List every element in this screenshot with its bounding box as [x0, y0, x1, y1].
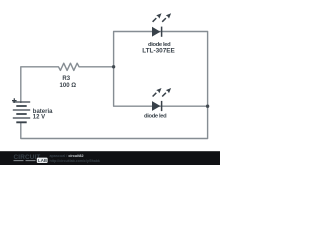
svg-text:LAB: LAB [38, 158, 47, 163]
svg-text:http://circuitlab.com/c/y/5hab: http://circuitlab.com/c/y/5habk [50, 159, 100, 163]
svg-text:100 Ω: 100 Ω [60, 83, 77, 89]
svg-text:R3: R3 [62, 76, 70, 82]
svg-text:12 V: 12 V [33, 115, 45, 121]
svg-text:LTL-307EE: LTL-307EE [142, 47, 175, 54]
svg-text:diode led: diode led [144, 114, 167, 120]
svg-text:apascual / circuit82: apascual / circuit82 [50, 154, 84, 158]
